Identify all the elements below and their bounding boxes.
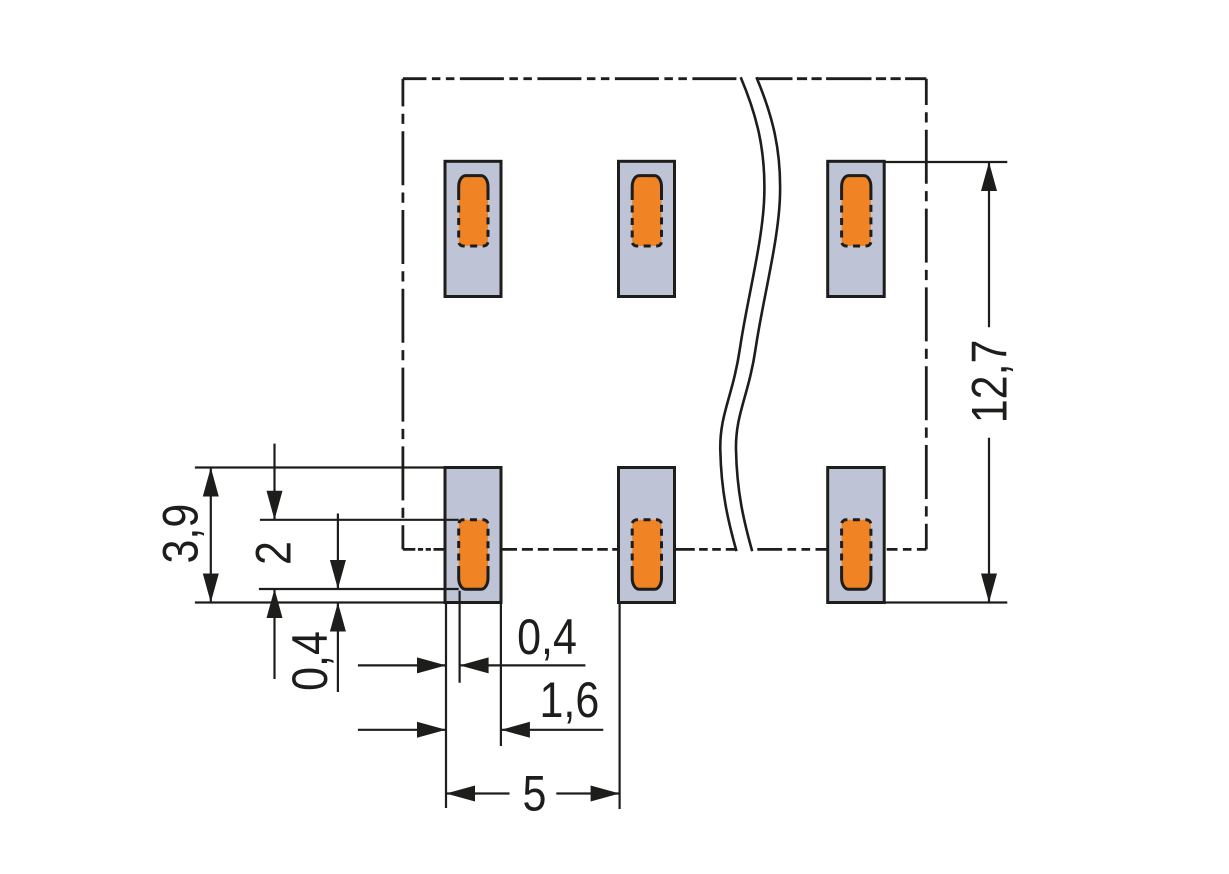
contact T1 orange fill [459, 176, 488, 246]
extension line pad3-top right (12,7 top) [884, 161, 1007, 163]
arrowhead 12,7 down [981, 574, 997, 603]
dimension 12,7 lower shaft [988, 438, 990, 603]
arrowhead 0,4h right [417, 657, 446, 673]
contact T3 dashed stroke [842, 200, 871, 246]
dimension 0,4 vertical lower arrow shaft [337, 603, 339, 693]
dimension 2 lower arrow shaft [273, 589, 275, 679]
extension line pad3-bottom right (12,7 bottom) [884, 601, 1007, 603]
arrowhead 1,6 left [501, 722, 530, 738]
outline bottom edge seg corner-to-pad1 [403, 548, 446, 551]
break band white mask [720, 77, 780, 551]
dimension 0,4 vertical upper arrow shaft [337, 514, 339, 590]
contact B3 dashed stroke [842, 520, 871, 566]
contact B1 solid stroke [459, 566, 488, 589]
outline top edge left part (phantom dash-dot-dot) [403, 77, 741, 80]
contact B2 orange fill [632, 520, 661, 590]
extension line pad-top left (3,9 top) [195, 466, 450, 468]
contact T2 orange fill [632, 176, 661, 246]
outline right edge (chain dash-dot) [925, 79, 928, 550]
extension line contact-top left (2 top) [260, 519, 459, 521]
dimension 12,7 upper shaft [988, 162, 990, 327]
outline bottom edge seg pad3-to-corner [887, 548, 927, 551]
dimension 5 right shaft [556, 792, 619, 794]
dimension 1,6 right shaft [501, 729, 603, 731]
pad T3 (gray) [828, 161, 885, 296]
contact T3 solid stroke [842, 176, 871, 200]
arrowhead 0,4v down [330, 560, 346, 589]
arrowhead 2 down [267, 491, 283, 520]
contact T2 dashed stroke [632, 200, 661, 246]
dimension 5 left shaft [446, 792, 510, 794]
extension line pad2-left down [618, 604, 620, 809]
contact T1 dashed stroke [459, 200, 488, 246]
break wavy line left [720, 77, 764, 551]
pad B3 (gray) [828, 468, 885, 603]
extension line pad-left down [445, 604, 447, 808]
outline bottom edge seg pad1-to-pad2 [502, 548, 618, 551]
extension line contact-bottom left (2 bottom / 0,4 top) [259, 588, 459, 590]
outline bottom edge seg pad2-to-break [675, 548, 741, 551]
pad T2 (gray) [619, 161, 675, 296]
svg-text:12,7: 12,7 [961, 340, 1017, 424]
svg-text:3,9: 3,9 [153, 504, 209, 564]
contact B1 dashed stroke [459, 520, 488, 566]
pad B2 (gray) [619, 468, 675, 603]
svg-text:2: 2 [245, 541, 301, 565]
arrowhead 0,4v up [330, 603, 346, 632]
arrowhead 5 left [446, 786, 475, 802]
svg-text:0,4: 0,4 [282, 631, 338, 691]
pad B1 (gray) [445, 468, 501, 603]
dimension line 3,9 [210, 468, 212, 603]
contact T3 orange fill [842, 176, 871, 246]
break wavy line right [736, 77, 780, 551]
dimension 0,4 horizontal right shaft [460, 664, 586, 666]
contact B1 orange fill [459, 520, 488, 590]
svg-text:5: 5 [522, 766, 546, 822]
dimension 2 upper arrow shaft [273, 444, 275, 520]
arrowhead 1,6 right [417, 722, 446, 738]
contact T1 solid stroke [459, 176, 488, 200]
contact T2 solid stroke [632, 176, 661, 200]
arrowhead 2 up [267, 589, 283, 618]
dimension 0,4 horizontal left shaft [358, 664, 446, 666]
contact B2 dashed stroke [632, 520, 661, 566]
arrowhead 3,9 down [203, 574, 219, 603]
contact B3 solid stroke [842, 566, 871, 589]
outline bottom edge seg break-to-pad3 [757, 548, 827, 551]
outline left edge (chain dash-dot) [401, 79, 404, 550]
extension line pad-bottom left (3,9 bottom) [195, 601, 450, 603]
dimension 1,6 left shaft [358, 729, 446, 731]
extension line pad-right down [500, 604, 502, 746]
arrowhead 5 right [591, 786, 620, 802]
outline top edge right part (phantom dash-dot-dot) [756, 77, 926, 80]
svg-text:1,6: 1,6 [540, 672, 600, 728]
contact B2 solid stroke [632, 566, 661, 589]
arrowhead 0,4h left [460, 657, 489, 673]
pad T1 (gray) [445, 161, 501, 296]
contact B3 orange fill [842, 520, 871, 590]
arrowhead 3,9 up [203, 468, 219, 497]
svg-text:0,4: 0,4 [517, 609, 577, 665]
extension line contact-left down [459, 591, 461, 683]
arrowhead 12,7 up [981, 162, 997, 191]
